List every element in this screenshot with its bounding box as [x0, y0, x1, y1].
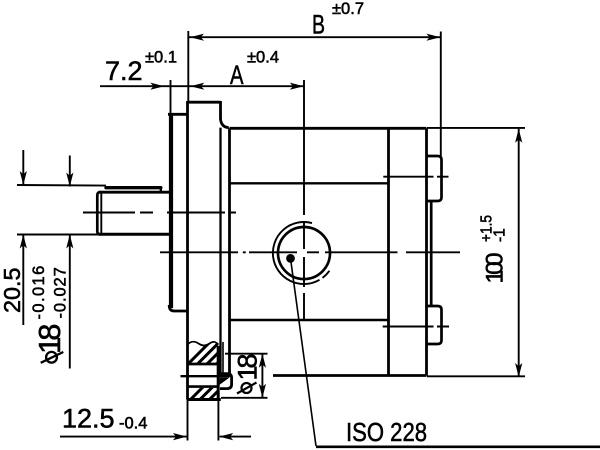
svg-text:20.5: 20.5	[0, 268, 25, 314]
svg-text:±0.7: ±0.7	[332, 0, 364, 18]
svg-text:A: A	[230, 60, 244, 90]
svg-text:100: 100	[482, 253, 509, 284]
svg-text:-0.027: -0.027	[51, 266, 69, 318]
svg-text:-0.4: -0.4	[119, 415, 147, 433]
svg-text:7.2: 7.2	[105, 56, 143, 86]
svg-text:18: 18	[232, 354, 262, 380]
svg-text:±0.4: ±0.4	[247, 48, 279, 66]
svg-text:-0.016: -0.016	[30, 264, 48, 319]
svg-text:12.5: 12.5	[62, 404, 115, 434]
svg-text:±0.1: ±0.1	[145, 49, 177, 67]
svg-text:-1: -1	[492, 228, 509, 242]
svg-text:B: B	[312, 10, 325, 40]
svg-text:ISO 228: ISO 228	[346, 418, 427, 447]
svg-text:18: 18	[32, 325, 67, 354]
